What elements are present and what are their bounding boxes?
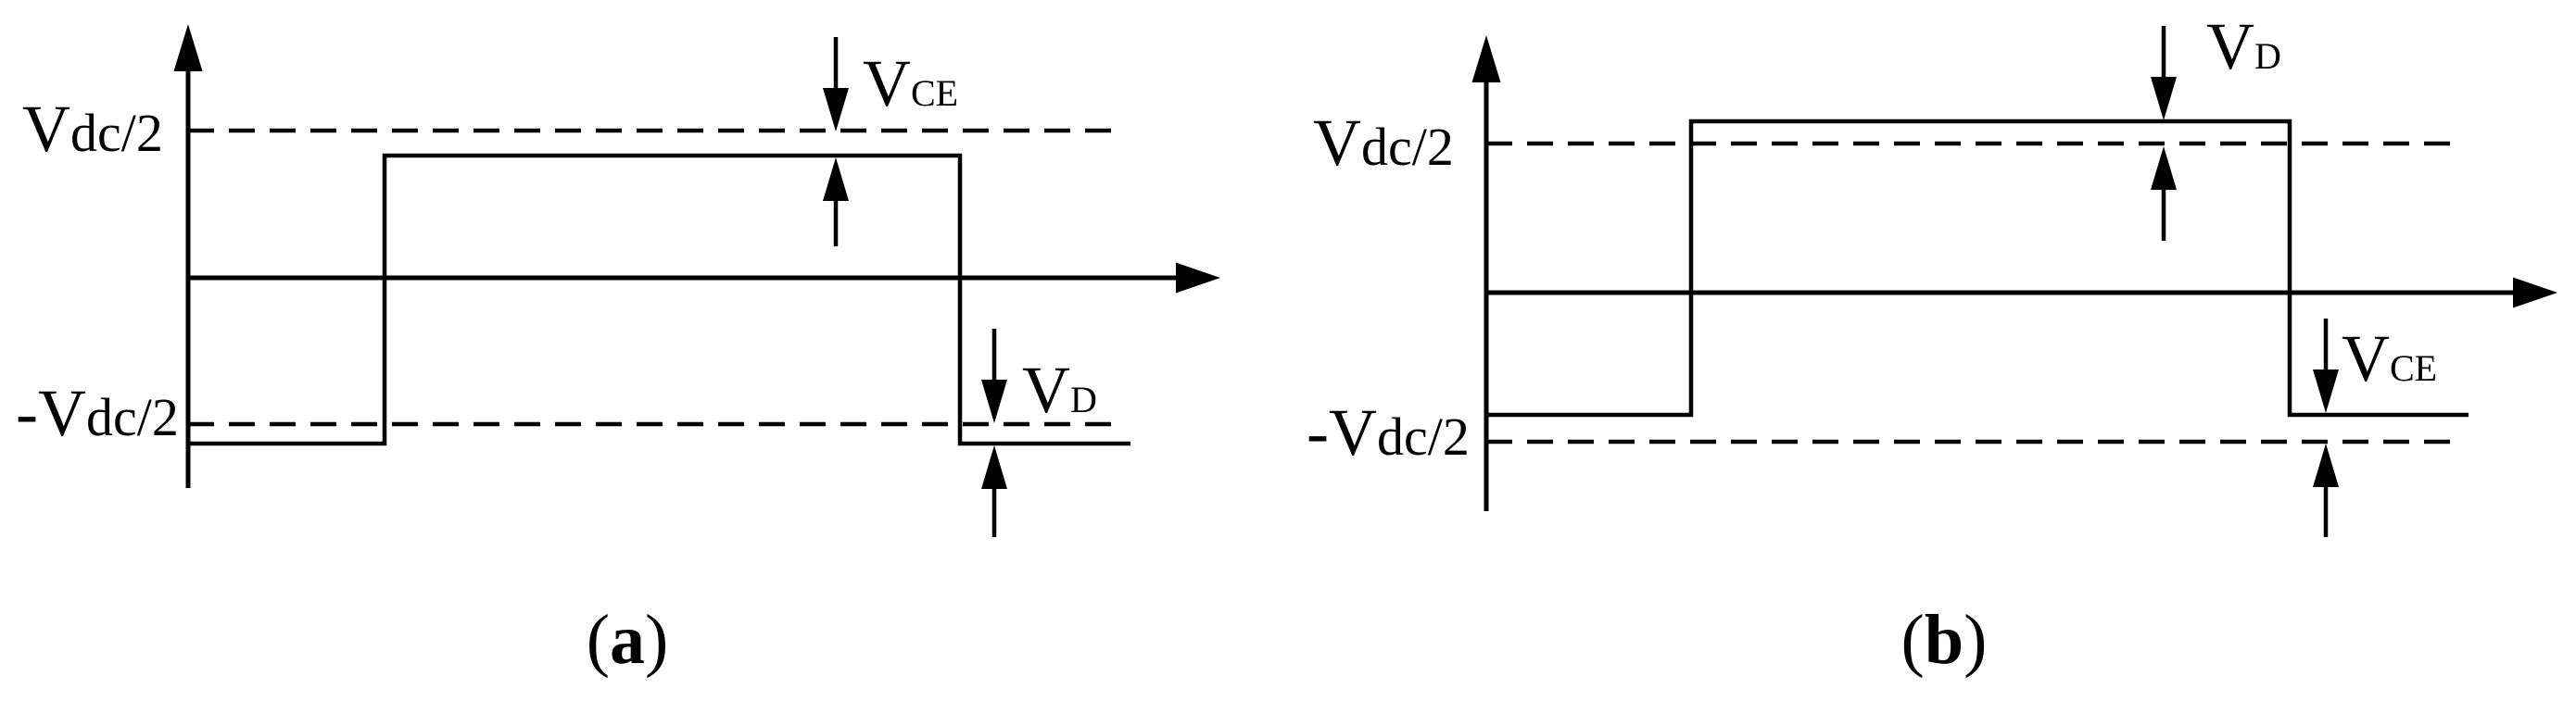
svg-text:(b): (b): [1901, 601, 1988, 679]
svg-text:(a): (a): [587, 601, 669, 679]
svg-text:Vdc/2: Vdc/2: [1313, 106, 1454, 180]
svg-text:Vdc/2: Vdc/2: [22, 92, 163, 166]
svg-text:-Vdc/2: -Vdc/2: [16, 376, 179, 450]
svg-text:-Vdc/2: -Vdc/2: [1307, 395, 1470, 469]
